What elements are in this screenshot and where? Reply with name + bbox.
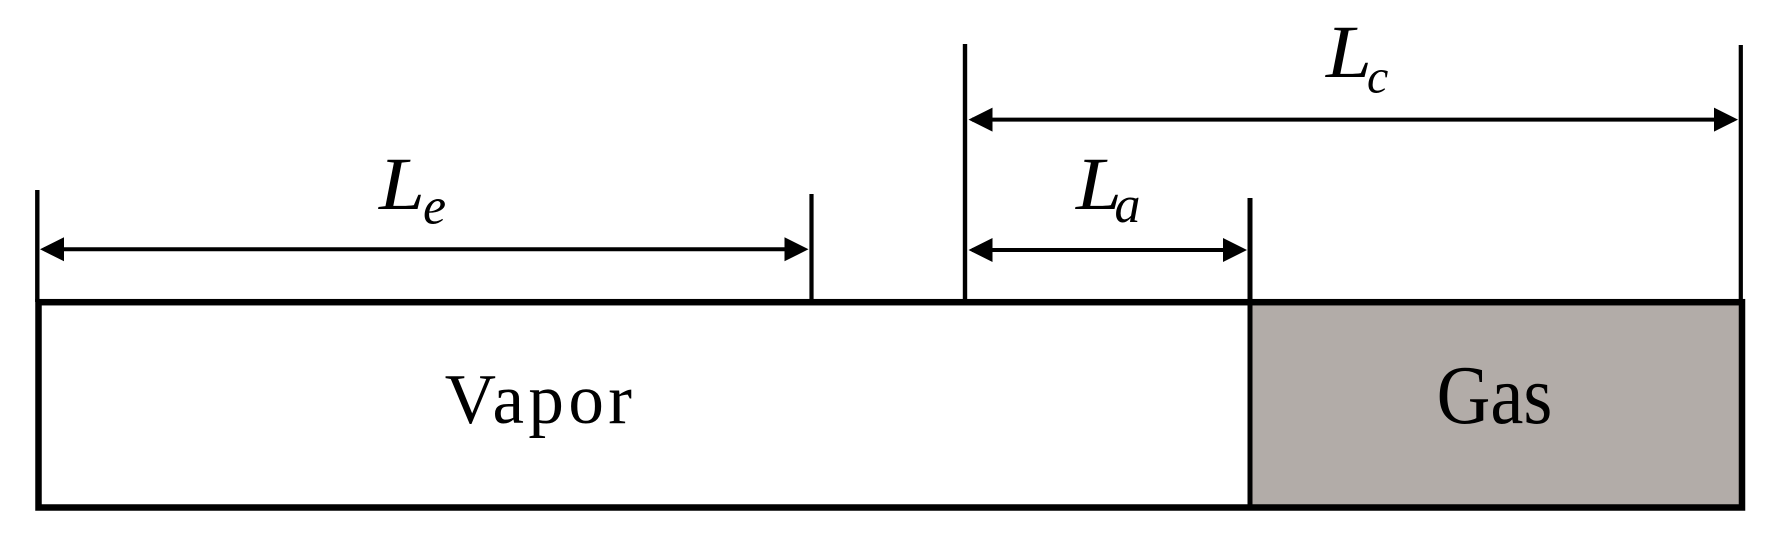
Le right tick bbox=[809, 194, 813, 302]
dimension arrow Le left head bbox=[40, 237, 64, 261]
svg-text:Vapor: Vapor bbox=[445, 361, 637, 439]
vapor/gas divider bbox=[1248, 198, 1253, 507]
svg-text:c: c bbox=[1367, 51, 1388, 104]
Lc left tick bbox=[963, 44, 967, 302]
dimension arrow Lc left head bbox=[969, 108, 993, 132]
gas section fill bbox=[1250, 302, 1741, 507]
dimension arrow La line bbox=[972, 248, 1243, 252]
dimension arrow Le line bbox=[44, 247, 804, 251]
dimension arrow La left head bbox=[969, 238, 993, 262]
svg-text:L: L bbox=[1325, 11, 1372, 94]
dimension arrow Lc line bbox=[972, 118, 1734, 122]
svg-text:Gas: Gas bbox=[1437, 349, 1553, 442]
dimension arrow Lc right head bbox=[1714, 108, 1738, 132]
svg-text:a: a bbox=[1115, 177, 1141, 234]
dimension arrow Le right head bbox=[785, 237, 809, 261]
left tick bbox=[35, 190, 39, 302]
svg-text:L: L bbox=[378, 143, 425, 226]
pipe body outline bbox=[39, 302, 1743, 507]
svg-text:e: e bbox=[423, 179, 446, 236]
right tick bbox=[1739, 45, 1743, 302]
dimension arrow La right head bbox=[1223, 238, 1247, 262]
